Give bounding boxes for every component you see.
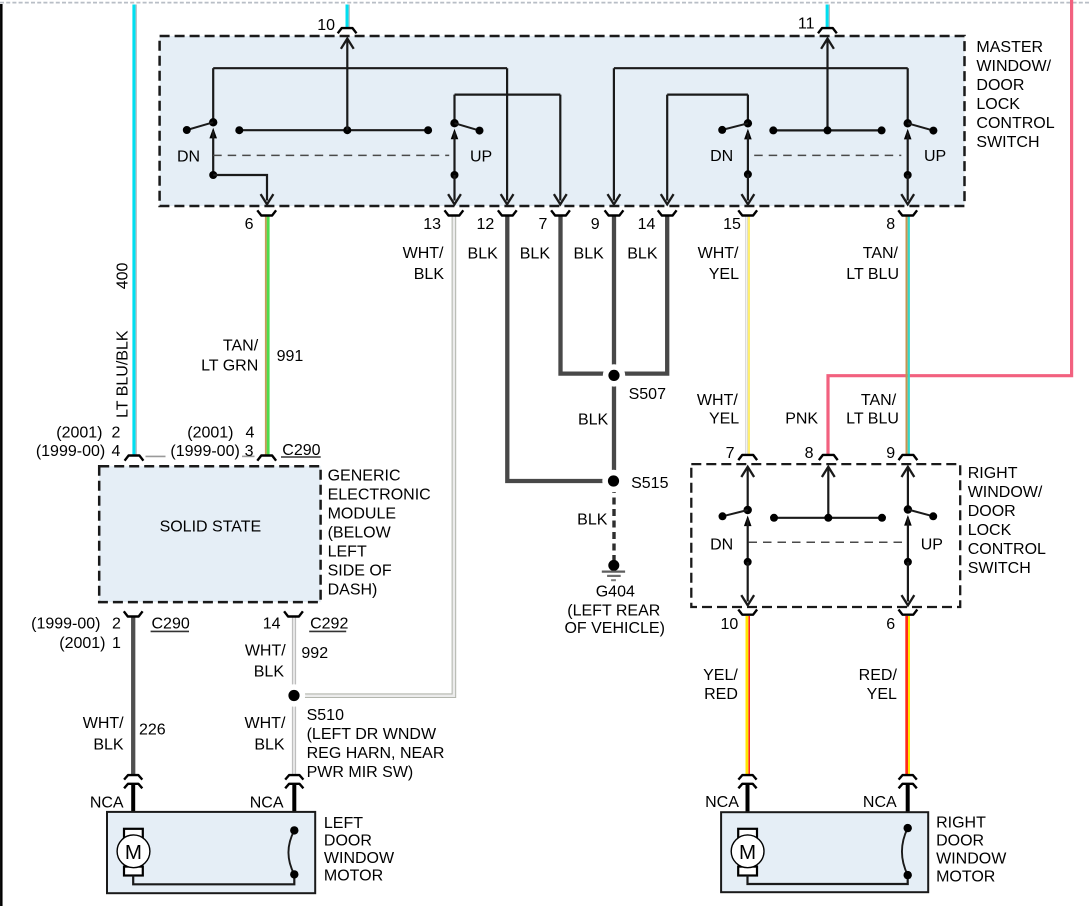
wire LT BLU/BLK 400 (cyan) to module (132, 5, 135, 456)
ground bar 2 (607, 575, 621, 577)
svg-text:PNK: PNK (785, 411, 818, 428)
ground dot G404 (608, 560, 619, 571)
svg-text:CONTROL: CONTROL (968, 541, 1046, 558)
node master left UP pivot (450, 119, 458, 127)
svg-text:YEL/: YEL/ (703, 667, 738, 684)
right switch wire pin 7 to DN pivot (747, 468, 749, 511)
svg-text:NCA: NCA (705, 794, 739, 811)
svg-text:S510: S510 (307, 707, 344, 724)
wire WHT/BLK from master pin 13 to S510 (297, 216, 454, 696)
arrow out master pin 12 (501, 194, 514, 204)
connector master pin 10 (338, 28, 357, 33)
svg-text:WINDOW/: WINDOW/ (968, 484, 1043, 501)
svg-text:BLK: BLK (627, 246, 658, 263)
svg-text:2: 2 (112, 616, 121, 633)
svg-text:UP: UP (470, 149, 492, 166)
master wire common bar to pin 10 (346, 40, 348, 131)
svg-text:NCA: NCA (250, 794, 284, 811)
arrow out master pin 8 (901, 194, 914, 204)
master wire common bar to pin 11 (826, 40, 828, 131)
svg-text:S515: S515 (631, 475, 668, 492)
wire master DN to pin 6 (213, 175, 267, 201)
svg-text:BLK: BLK (520, 246, 551, 263)
underline C290 bottom (151, 630, 189, 632)
arrow out master pin 13 (448, 194, 461, 204)
svg-text:DN: DN (710, 537, 733, 554)
svg-text:M: M (125, 841, 142, 864)
connector master pin 12 (498, 210, 517, 215)
node right motor contact bottom (904, 871, 912, 879)
svg-text:4: 4 (245, 424, 254, 441)
connector master pin 8 (898, 210, 917, 215)
svg-text:LT BLU/BLK: LT BLU/BLK (114, 330, 131, 418)
right door window motor box (721, 812, 928, 892)
svg-text:(LEFT REAR: (LEFT REAR (567, 603, 660, 620)
node right switch DN lower junction (744, 558, 752, 566)
connector master pin 13 (445, 210, 464, 215)
svg-text:WHT/: WHT/ (697, 392, 738, 409)
svg-text:2: 2 (111, 424, 120, 441)
wire TAN/LT GRN 991 tan stripe (265, 215, 267, 455)
svg-text:10: 10 (317, 17, 335, 34)
arrow out master pin 7 (554, 194, 567, 204)
connector master pin 15 (738, 210, 757, 215)
master internal wire to left DN pivot (212, 68, 214, 122)
connector module C290 pin (2001-4 / 1999-2) (125, 456, 144, 461)
wire TAN/LT BLU tan stripe (905, 216, 907, 455)
svg-text:DOOR: DOOR (976, 77, 1024, 94)
svg-text:992: 992 (301, 645, 328, 662)
wire RED/YEL yellow stripe (908, 616, 910, 776)
svg-text:14: 14 (263, 616, 281, 633)
wire master right DN wiper to node (747, 132, 749, 174)
node master DN lower junction (209, 171, 217, 179)
svg-text:(2001): (2001) (59, 635, 105, 652)
node master right DN lower junction (744, 170, 752, 178)
connector NCA left motor 2 (285, 775, 303, 788)
arrow master right UP wiper (904, 129, 912, 140)
svg-text:TAN/: TAN/ (863, 245, 899, 262)
node master DN contact (183, 126, 191, 134)
arrow in right switch pin 8 (822, 467, 835, 477)
svg-text:LOCK: LOCK (968, 522, 1012, 539)
wire NCA into left motor (+) (131, 784, 135, 829)
node master right UP pivot (904, 119, 912, 127)
svg-text:(1999-00): (1999-00) (170, 443, 239, 460)
svg-text:DASH): DASH) (328, 581, 378, 598)
node master left bar center (343, 126, 351, 134)
connector master pin 6 (257, 210, 276, 215)
svg-text:400: 400 (114, 263, 131, 290)
wire master to pin 13 (453, 175, 455, 201)
svg-text:PWR MIR SW): PWR MIR SW) (307, 764, 414, 781)
wire NCA into right motor contact (906, 784, 910, 828)
connector master pin 9 (605, 210, 624, 215)
wire BLK master pin 14 to S507 (617, 216, 667, 374)
right window/door lock control switch box (691, 464, 960, 607)
svg-text:G404: G404 (596, 584, 635, 601)
svg-text:WINDOW/: WINDOW/ (976, 58, 1051, 75)
svg-text:UP: UP (921, 537, 943, 554)
node master right UP contact (929, 127, 937, 135)
svg-text:SWITCH: SWITCH (976, 134, 1039, 151)
wire WHT/BLK 992 module C292 pin 14 to motor (292, 617, 296, 776)
wire WHT/YEL yellow stripe (748, 216, 750, 455)
connector C290 line segment 2 (242, 455, 255, 457)
wire BLK master pin 12 to S515 (507, 216, 611, 481)
svg-text:10: 10 (721, 616, 739, 633)
node right switch bar right contact (878, 514, 886, 522)
right switch DN wiper to node (747, 519, 749, 562)
master left switch detent line (213, 154, 449, 156)
svg-text:DN: DN (710, 148, 733, 165)
switch blade master right UP (908, 123, 934, 130)
switch blade master right DN (722, 123, 748, 130)
svg-text:BLK: BLK (93, 736, 124, 753)
master internal wire (left UP pivot to pin 7) (455, 93, 561, 95)
svg-text:NCA: NCA (863, 794, 897, 811)
arrow out master pin 15 (742, 194, 755, 204)
master internal wire down to pin 7 (559, 95, 561, 201)
switch blade master left UP (455, 123, 480, 130)
arrow in right switch pin 9 (902, 467, 915, 477)
wire WHT/YEL white stripe (745, 216, 748, 455)
wire BLK S507 to S515 (612, 375, 616, 478)
wire master left UP wiper to node (453, 132, 455, 175)
master internal wire (pin 14 to right DN pivot) (667, 93, 748, 95)
connector NCA right motor 2 (899, 775, 917, 788)
svg-text:TAN/: TAN/ (223, 337, 259, 354)
node master left UP lower junction (451, 171, 459, 179)
arrow in right switch pin 7 (741, 467, 754, 477)
arrow out right switch pin 10 (741, 595, 754, 605)
generic electronic module box (99, 466, 320, 602)
svg-text:YEL: YEL (709, 411, 739, 428)
svg-text:LT GRN: LT GRN (201, 357, 258, 374)
svg-text:CONTROL: CONTROL (976, 115, 1054, 132)
node left motor contact bottom (290, 870, 298, 878)
arrow master left UP wiper (451, 129, 459, 140)
svg-text:7: 7 (726, 445, 735, 462)
connector C290 line segment (146, 455, 166, 457)
svg-text:WHT/: WHT/ (245, 715, 286, 732)
master right switch detent line (754, 154, 901, 156)
arrow master DN wiper (209, 128, 217, 139)
wire YEL/RED red stripe (748, 616, 750, 776)
master right switch common bar (773, 129, 881, 131)
underline C292 (309, 630, 346, 632)
wire stripe pin 11 stub (828, 5, 830, 29)
connector right switch pin 7 (738, 455, 757, 460)
splice S515 halo (602, 470, 624, 492)
svg-text:MODULE: MODULE (328, 505, 396, 522)
svg-text:NCA: NCA (90, 794, 124, 811)
svg-text:WHT/: WHT/ (698, 245, 739, 262)
svg-text:SIDE OF: SIDE OF (328, 562, 392, 579)
connector master pin 7 (551, 210, 570, 215)
right door window motor M2 symbol (731, 829, 764, 876)
wire TAN/LT BLU blue stripe (908, 216, 910, 455)
wire LT BLU/BLK black stripe (135, 5, 137, 456)
connector right switch pin 9 (899, 455, 918, 460)
arrow right switch UP wiper (904, 515, 912, 526)
svg-text:BLK: BLK (574, 246, 605, 263)
node master left UP contact (476, 127, 484, 135)
svg-text:WHT/: WHT/ (83, 715, 124, 732)
wire NCA into left motor contact (292, 784, 296, 830)
wire stripe pin 10 stub (348, 5, 350, 29)
svg-text:WHT/: WHT/ (245, 643, 286, 660)
arrow master right DN wiper (744, 129, 752, 140)
wire LT BLU stub to master pin 11 (826, 5, 829, 29)
wire master DN wiper to node (212, 131, 214, 175)
svg-text:ELECTRONIC: ELECTRONIC (328, 486, 431, 503)
svg-text:C292: C292 (310, 616, 348, 633)
svg-text:DOOR: DOOR (936, 832, 984, 849)
connector right switch pin 8 (819, 455, 838, 460)
wire master to pin 15 (747, 174, 749, 200)
node master DN pivot (209, 118, 217, 126)
node right motor contact top (904, 824, 912, 832)
right switch UP wiper to node (907, 518, 909, 562)
svg-text:(2001): (2001) (56, 424, 102, 441)
svg-text:13: 13 (423, 216, 441, 233)
right switch wire to pin 10 (747, 562, 749, 602)
splice S515 (608, 475, 619, 486)
node left motor contact top (290, 826, 298, 834)
svg-text:(1999-00): (1999-00) (31, 616, 100, 633)
ground bar 1 (602, 570, 625, 572)
svg-text:BLK: BLK (414, 266, 445, 283)
node master right bar center (824, 126, 832, 134)
master internal wire to right UP pivot (907, 68, 909, 123)
connector master pin 11 (818, 28, 837, 33)
node master left bar left contact (235, 126, 243, 134)
wire RED/YEL red stripe (905, 616, 908, 776)
svg-text:WHT/: WHT/ (403, 245, 444, 262)
arrow out master pin 10 (341, 39, 354, 49)
master internal bus wire (pin 9 to UP pivot) (614, 67, 908, 69)
splice S510 halo (283, 684, 305, 706)
svg-text:SWITCH: SWITCH (968, 560, 1031, 577)
master internal wire down to pin 12 (506, 68, 508, 200)
connector NCA right motor 1 (738, 775, 756, 788)
svg-text:TAN/: TAN/ (861, 392, 897, 409)
svg-text:(BELOW: (BELOW (328, 524, 392, 541)
svg-text:BLK: BLK (577, 512, 608, 529)
node master right UP lower junction (904, 171, 912, 179)
splice S507 (608, 370, 619, 381)
left motor contact arc (288, 830, 294, 874)
arrow right switch DN wiper (744, 516, 752, 527)
node right switch bar center (824, 514, 832, 522)
page left border (0, 4, 3, 906)
wire LT BLU stub to master pin 10 (346, 5, 349, 29)
arrow out master pin 6 (261, 194, 274, 204)
node master right bar right contact (878, 126, 886, 134)
node right switch DN contact (719, 512, 727, 520)
master window/door lock control switch U1 box (160, 36, 965, 206)
svg-text:BLK: BLK (254, 664, 285, 681)
svg-text:LT BLU: LT BLU (846, 266, 899, 283)
wire master right UP wiper to node (907, 132, 909, 175)
svg-text:MOTOR: MOTOR (324, 867, 383, 884)
connector NCA left motor 1 (124, 775, 142, 788)
arrow out master pin 14 (661, 194, 674, 204)
svg-text:SOLID STATE: SOLID STATE (160, 519, 262, 536)
connector module C292 pin 14 (284, 611, 303, 616)
node master right DN pivot (744, 119, 752, 127)
right motor internal wire (748, 875, 908, 884)
splice S510 (288, 690, 299, 701)
node master right bar left contact (769, 126, 777, 134)
svg-text:UP: UP (924, 148, 946, 165)
svg-text:GENERIC: GENERIC (328, 467, 401, 484)
svg-text:DN: DN (177, 149, 200, 166)
svg-text:9: 9 (886, 445, 895, 462)
svg-text:WINDOW: WINDOW (324, 850, 395, 867)
connector right switch pin 10 (738, 610, 757, 615)
svg-text:8: 8 (886, 216, 895, 233)
master internal wire down to right DN pivot (747, 95, 749, 124)
svg-text:(LEFT DR WNDW: (LEFT DR WNDW (307, 726, 437, 743)
svg-text:RIGHT: RIGHT (936, 814, 986, 831)
connector module C290 pin 2 (124, 611, 143, 616)
arrow out master pin 9 (608, 194, 621, 204)
svg-text:9: 9 (591, 216, 600, 233)
node right switch DN pivot (744, 506, 752, 514)
svg-text:LT BLU: LT BLU (846, 411, 899, 428)
switch blade master DN (187, 122, 213, 130)
right switch wire pin 9 to UP pivot (907, 468, 909, 510)
left motor internal wire (133, 875, 294, 885)
svg-text:14: 14 (638, 216, 656, 233)
node right switch UP lower junction (904, 558, 912, 566)
wire WHT/BLK 226 module C290 pin 2 to motor (131, 617, 135, 776)
master internal bus wire (pin 10 feed to pin 12) (213, 67, 507, 69)
right switch common bar (774, 517, 882, 519)
switch blade right DN (723, 510, 748, 516)
svg-text:(2001): (2001) (187, 424, 233, 441)
svg-text:LOCK: LOCK (976, 96, 1020, 113)
underline C290 top (281, 456, 321, 458)
svg-text:C290: C290 (282, 442, 320, 459)
ground bar 3 (611, 579, 616, 581)
arrow out right switch pin 6 (902, 595, 915, 605)
master left switch common bar (239, 129, 428, 131)
svg-text:BLK: BLK (578, 411, 609, 428)
page top border (0, 2, 1090, 4)
wire PNK to right switch pin 8 (828, 0, 1072, 455)
connector master pin 14 (658, 210, 677, 215)
svg-text:15: 15 (723, 216, 741, 233)
wire BLK S515 to ground G404 (dashed) (612, 486, 615, 562)
right switch wire to pin 6 (907, 562, 909, 602)
svg-text:DOOR: DOOR (968, 503, 1016, 520)
svg-text:226: 226 (139, 722, 166, 739)
connector right switch pin 6 (899, 610, 918, 615)
svg-text:OF VEHICLE): OF VEHICLE) (564, 620, 664, 637)
arrow out master pin 11 (821, 39, 834, 49)
svg-text:C290: C290 (152, 616, 190, 633)
svg-text:M: M (739, 841, 756, 864)
svg-text:LEFT: LEFT (324, 815, 363, 832)
wire BLK master pin 9 to S507 (612, 216, 616, 372)
svg-text:RED/: RED/ (859, 667, 898, 684)
svg-text:7: 7 (538, 216, 547, 233)
svg-text:12: 12 (477, 216, 495, 233)
svg-text:RIGHT: RIGHT (968, 465, 1018, 482)
left door window motor box (107, 812, 315, 893)
right motor contact arc (902, 828, 908, 875)
svg-text:YEL: YEL (709, 266, 739, 283)
switch blade right UP (908, 510, 933, 517)
wire master to pin 8 (907, 175, 909, 201)
svg-text:LEFT: LEFT (328, 543, 367, 560)
svg-text:YEL: YEL (867, 686, 897, 703)
svg-text:BLK: BLK (254, 736, 285, 753)
wire TAN/LT GRN 991 green stripe (267, 215, 270, 455)
svg-text:BLK: BLK (468, 246, 499, 263)
svg-text:DOOR: DOOR (324, 832, 372, 849)
svg-text:1: 1 (112, 635, 121, 652)
svg-text:6: 6 (886, 616, 895, 633)
svg-text:WINDOW: WINDOW (936, 850, 1007, 867)
master internal wire down to left UP pivot (453, 95, 455, 124)
wire YEL/RED yellow stripe (746, 616, 749, 776)
svg-text:REG HARN, NEAR: REG HARN, NEAR (307, 745, 445, 762)
node right switch UP contact (929, 512, 937, 520)
wire NCA into right motor (+) (746, 784, 750, 829)
splice S507 halo (603, 364, 625, 386)
node right switch UP pivot (904, 505, 912, 513)
right switch detent line (749, 541, 904, 543)
right switch wire pin 8 to common bar (827, 468, 829, 518)
svg-text:11: 11 (798, 16, 815, 33)
node right switch bar left contact (770, 514, 778, 522)
svg-text:(1999-00): (1999-00) (36, 443, 105, 460)
master internal wire down to pin 14 (666, 95, 668, 201)
svg-text:8: 8 (805, 445, 814, 462)
svg-text:6: 6 (245, 216, 254, 233)
svg-text:MASTER: MASTER (976, 39, 1043, 56)
master internal wire down to pin 9 (613, 68, 615, 200)
wire BLK master pin 7 to S507 (561, 216, 612, 374)
node master left bar right contact (424, 126, 432, 134)
svg-text:S507: S507 (629, 386, 666, 403)
svg-text:3: 3 (245, 443, 254, 460)
svg-text:991: 991 (277, 348, 304, 365)
node master right DN contact (718, 126, 726, 134)
svg-text:4: 4 (111, 443, 120, 460)
svg-text:RED: RED (704, 686, 738, 703)
svg-text:MOTOR: MOTOR (936, 868, 995, 885)
connector module C290 pin (2001-4/1999-3) (257, 456, 276, 461)
left door window motor M1 symbol (117, 829, 150, 876)
